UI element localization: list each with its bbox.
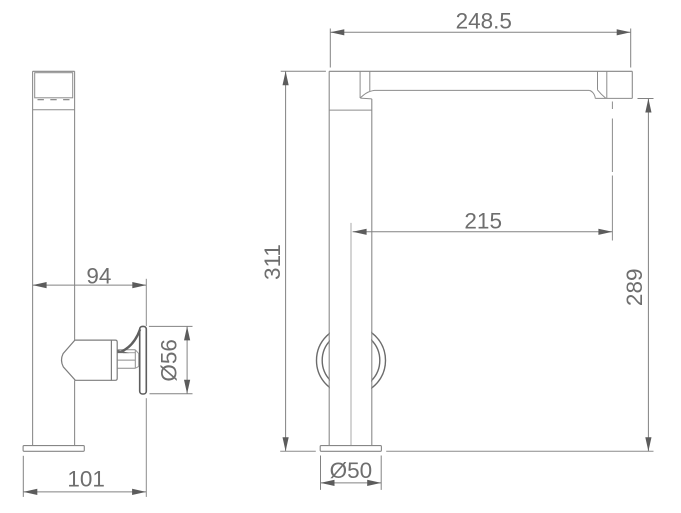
- side view: column right edge lower segment: [74, 380, 76, 445]
- front view: top edge of spout: [329, 70, 632, 72]
- side view: handle rosette disc: [140, 326, 147, 394]
- side view: base flange: [23, 446, 84, 452]
- dim 94 line: [33, 284, 147, 286]
- dim 215 left arrow: [353, 229, 367, 235]
- dim 215 right arrow: [598, 229, 612, 235]
- dim 289 dimension line: [647, 99, 649, 452]
- side view: stem-to-disc upper diagonal: [135, 350, 138, 369]
- dim 248.5 right extension line: [630, 29, 632, 68]
- svg-text:215: 215: [464, 209, 502, 234]
- side view: cartridge stem middle line: [117, 359, 135, 361]
- side view: handle face reference line upper: [145, 279, 147, 326]
- dim 248.5 dimension line: [330, 31, 630, 33]
- dim 248.5 right arrow: [617, 29, 631, 35]
- side view: column left edge: [32, 71, 34, 445]
- svg-text:289: 289: [622, 269, 647, 307]
- side view: head band bottom line: [33, 109, 75, 111]
- dim Ø50 dimension line: [321, 482, 382, 484]
- dim 215 dimension line: [353, 231, 613, 233]
- front view: base flange: [320, 446, 381, 452]
- front view: column body mask over circles: [330, 322, 371, 399]
- front view: right cove curve: [598, 90, 606, 99]
- dim Ø56 bottom extension line: [150, 393, 193, 395]
- dim Ø56 down arrow: [184, 380, 190, 394]
- dim 311 down arrow: [283, 437, 289, 451]
- side view: spout arm end face (inner rect): [35, 73, 73, 98]
- dim 289 up arrow: [645, 99, 651, 113]
- svg-text:311: 311: [260, 244, 285, 280]
- svg-text:248.5: 248.5: [456, 8, 512, 33]
- front view: spout end block bottom: [595, 97, 632, 99]
- svg-text:Ø50: Ø50: [330, 458, 373, 483]
- front view: head right shoulder: [360, 97, 372, 100]
- dim 101 left extension line: [22, 456, 24, 497]
- side view: lever arm base wedge: [117, 350, 129, 353]
- side view: cartridge stem right edge: [134, 350, 136, 369]
- dim Ø50 left arrow: [321, 480, 335, 486]
- svg-text:Ø56: Ø56: [157, 339, 182, 382]
- dim 289 top extension line: [638, 98, 654, 100]
- side view: cartridge stem bottom edge: [117, 367, 135, 369]
- front view: right seam line 1: [597, 71, 599, 90]
- dim 289 down arrow: [645, 437, 651, 451]
- side view: spout head top edge: [33, 70, 75, 72]
- front view: handle inner circle: [322, 332, 380, 390]
- front view: left seam line B: [369, 71, 371, 91]
- front view: handle outer circle: [317, 326, 386, 395]
- dim 101 dimension line: [23, 491, 146, 493]
- side view: handle face reference line lower: [145, 398, 147, 497]
- dim 101 right arrow: [132, 489, 146, 495]
- front view: counter line left segment: [280, 450, 316, 452]
- front view: right fillet silhouette: [589, 90, 595, 98]
- dim 248.5 left extension line: [329, 29, 331, 68]
- side view: handle knob end cap: [111, 340, 117, 380]
- side view: cartridge stem upper inner line: [123, 352, 135, 354]
- dim Ø50 right arrow: [367, 480, 381, 486]
- front view: right seam line 2: [606, 71, 608, 98]
- dim 311 dimension line: [285, 71, 287, 451]
- dim 311 top extension line: [281, 70, 326, 72]
- dim 101 left arrow: [23, 489, 37, 495]
- dim 94 left arrow: [33, 282, 47, 288]
- dim 311 up arrow: [283, 71, 289, 85]
- dim Ø56 top extension line: [149, 325, 193, 327]
- front view: left cove curve: [360, 90, 374, 98]
- front view: water stream centerline main: [611, 119, 613, 241]
- dim Ø56 dimension line: [186, 326, 188, 393]
- front view: spout underside line: [375, 89, 590, 91]
- front view: water stream centerline dash: [611, 102, 613, 110]
- dim 94 right arrow: [132, 282, 146, 288]
- side view: cartridge stem top edge: [117, 349, 135, 351]
- side view: column right edge upper segment: [74, 71, 76, 340]
- front view: column left edge: [328, 71, 330, 445]
- front view: spout right edge: [631, 71, 633, 98]
- front view: column right edge: [371, 99, 373, 446]
- side view: lever arm curve: [121, 329, 140, 352]
- dim Ø56 up arrow: [184, 326, 190, 340]
- front view: left seam line A: [359, 71, 361, 98]
- svg-text:94: 94: [86, 263, 111, 288]
- svg-text:101: 101: [67, 466, 105, 491]
- side view: hidden edge dashed line: [38, 99, 71, 101]
- dim 248.5 left arrow: [330, 29, 344, 35]
- front view: column centerline: [350, 223, 352, 446]
- front view: counter line right segment: [386, 450, 653, 452]
- side view: handle knob body: [61, 340, 111, 380]
- dim Ø50 right extension line: [380, 456, 382, 490]
- dim Ø50 left extension line: [320, 456, 322, 490]
- front view: head bottom line: [329, 109, 372, 111]
